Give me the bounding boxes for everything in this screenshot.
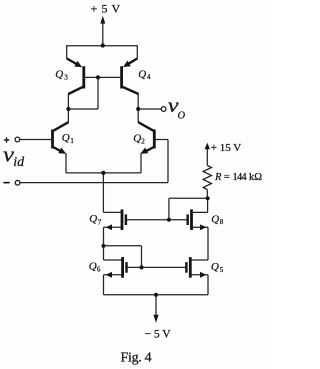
- svg-text:4: 4: [147, 73, 151, 81]
- svg-text:+ 15 V: + 15 V: [211, 142, 242, 154]
- svg-text:Q: Q: [89, 260, 97, 272]
- svg-text:O: O: [178, 111, 186, 122]
- svg-text:Q: Q: [138, 69, 146, 81]
- svg-text:8: 8: [220, 218, 224, 226]
- svg-text:2: 2: [141, 138, 145, 146]
- svg-text:1: 1: [70, 137, 74, 145]
- svg-text:− 5 V: − 5 V: [145, 329, 172, 341]
- svg-text:id: id: [13, 155, 25, 170]
- svg-text:kΩ: kΩ: [249, 172, 262, 183]
- svg-text:R: R: [214, 172, 222, 183]
- svg-text:Q: Q: [133, 132, 141, 144]
- svg-text:Fig. 4: Fig. 4: [121, 351, 152, 366]
- svg-text:Q: Q: [62, 132, 70, 144]
- svg-text:144: 144: [233, 172, 248, 183]
- svg-text:+ 5 V: + 5 V: [91, 1, 121, 15]
- svg-text:5: 5: [220, 266, 224, 274]
- svg-text:6: 6: [97, 266, 101, 274]
- svg-text:Q: Q: [211, 213, 219, 225]
- svg-text:=: =: [224, 172, 230, 183]
- svg-text:7: 7: [98, 218, 102, 226]
- svg-text:3: 3: [64, 74, 68, 82]
- svg-text:Q: Q: [89, 213, 97, 225]
- svg-text:Q: Q: [55, 68, 63, 80]
- svg-text:Q: Q: [211, 261, 219, 273]
